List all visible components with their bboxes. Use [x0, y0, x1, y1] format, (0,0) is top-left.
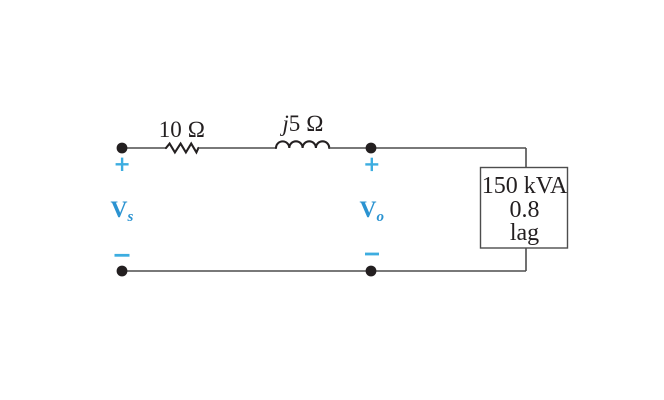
svg-text:150 kVA: 150 kVA	[482, 173, 568, 199]
minus sign at Vo	[365, 253, 379, 256]
wire between resistor and inductor	[198, 147, 276, 149]
svg-text:lag: lag	[510, 220, 539, 246]
node dot top-left	[117, 143, 128, 154]
wire right vertical top	[525, 148, 527, 168]
inductor j5 ohm	[276, 141, 329, 148]
svg-text:j5 Ω: j5 Ω	[279, 111, 323, 136]
wire top-left segment	[122, 147, 166, 149]
svg-text:Vo: Vo	[360, 197, 384, 225]
minus sign at Vs	[115, 254, 130, 257]
resistor R 10 ohm	[166, 144, 198, 153]
load box 150 kVA 0.8 lag	[481, 168, 568, 249]
svg-text:10 Ω: 10 Ω	[159, 117, 205, 142]
plus sign at Vs	[116, 158, 129, 171]
plus sign at Vo	[365, 158, 378, 171]
node dot bottom Vo	[366, 266, 377, 277]
wire bottom	[122, 270, 526, 272]
wire inductor to right corner	[329, 147, 526, 149]
svg-text:Vs: Vs	[111, 197, 134, 225]
node dot bottom-left	[117, 266, 128, 277]
wire right vertical bottom	[525, 248, 527, 271]
node dot top Vo	[366, 143, 377, 154]
